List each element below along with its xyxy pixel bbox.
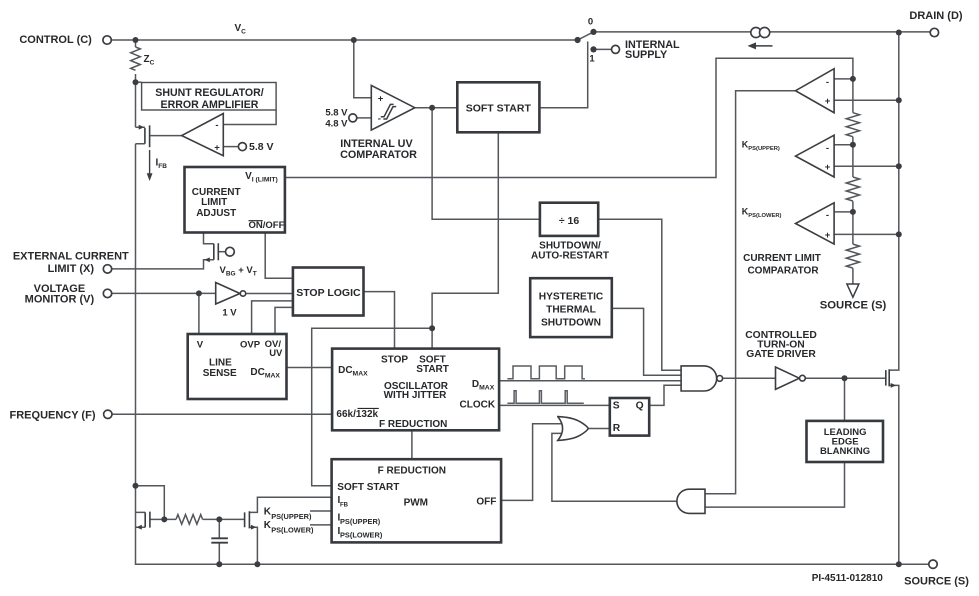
svg-text:ADJUST: ADJUST — [196, 208, 236, 219]
svg-text:SHUTDOWN: SHUTDOWN — [541, 318, 601, 329]
svg-text:PS(LOWER): PS(LOWER) — [271, 526, 314, 535]
svg-text:-: - — [826, 210, 829, 221]
svg-text:S: S — [613, 400, 620, 411]
svg-text:MONITOR (V): MONITOR (V) — [25, 294, 95, 306]
svg-text:F REDUCTION: F REDUCTION — [379, 419, 447, 430]
svg-text:STOP LOGIC: STOP LOGIC — [296, 287, 361, 299]
svg-text:PS(LOWER): PS(LOWER) — [340, 531, 383, 540]
svg-text:1: 1 — [589, 54, 595, 65]
svg-text:START: START — [416, 364, 449, 375]
svg-text:SOFT START: SOFT START — [466, 102, 532, 114]
svg-text:COMPARATOR: COMPARATOR — [340, 149, 417, 161]
svg-text:R: R — [613, 423, 621, 434]
svg-text:÷ 16: ÷ 16 — [559, 215, 580, 227]
svg-text:+: + — [214, 143, 220, 154]
svg-text:COMPARATOR: COMPARATOR — [747, 266, 819, 277]
svg-text:+: + — [378, 94, 384, 105]
svg-text:AUTO-RESTART: AUTO-RESTART — [531, 251, 609, 262]
svg-text:HYSTERETIC: HYSTERETIC — [539, 292, 604, 303]
svg-text:SUPPLY: SUPPLY — [625, 49, 668, 61]
svg-text:ERROR AMPLIFIER: ERROR AMPLIFIER — [161, 99, 259, 111]
svg-text:CLOCK: CLOCK — [460, 400, 496, 411]
svg-text:PI-4511-012810: PI-4511-012810 — [812, 573, 884, 584]
svg-text:LIMIT (X): LIMIT (X) — [48, 263, 95, 275]
svg-text:UV: UV — [269, 348, 283, 359]
svg-text:GATE DRIVER: GATE DRIVER — [746, 349, 816, 360]
svg-text:F REDUCTION: F REDUCTION — [378, 465, 446, 476]
svg-text:+: + — [825, 230, 831, 241]
svg-text:VBG + VT: VBG + VT — [220, 265, 257, 278]
svg-text:66k/132k: 66k/132k — [336, 409, 378, 420]
svg-text:-: - — [378, 114, 381, 125]
svg-text:PS(UPPER): PS(UPPER) — [271, 512, 312, 521]
svg-text:+: + — [825, 162, 831, 173]
svg-text:OVP: OVP — [240, 339, 261, 350]
svg-text:Q: Q — [636, 401, 644, 412]
svg-text:-: - — [215, 120, 218, 131]
svg-text:-: - — [826, 77, 829, 88]
svg-text:PWM: PWM — [404, 498, 428, 509]
svg-text:FB: FB — [340, 502, 349, 508]
svg-text:V: V — [197, 339, 204, 350]
svg-text:DRAIN (D): DRAIN (D) — [909, 10, 962, 22]
svg-text:SOURCE (S): SOURCE (S) — [820, 300, 887, 312]
svg-text:PS(UPPER): PS(UPPER) — [340, 517, 381, 526]
svg-text:FREQUENCY (F): FREQUENCY (F) — [10, 410, 96, 422]
svg-text:EXTERNAL CURRENT: EXTERNAL CURRENT — [13, 251, 129, 263]
svg-text:CONTROL (C): CONTROL (C) — [19, 34, 92, 46]
svg-text:LIMIT: LIMIT — [201, 197, 227, 208]
svg-text:ON/OFF: ON/OFF — [249, 220, 285, 231]
svg-text:SHUNT REGULATOR/: SHUNT REGULATOR/ — [155, 87, 264, 99]
svg-text:THERMAL: THERMAL — [546, 305, 596, 316]
svg-text:5.8 V: 5.8 V — [325, 108, 348, 119]
svg-text:+: + — [825, 96, 831, 107]
svg-text:SOFT START: SOFT START — [337, 482, 399, 493]
svg-text:0: 0 — [588, 17, 593, 28]
svg-text:WITH JITTER: WITH JITTER — [384, 390, 448, 401]
svg-text:BLANKING: BLANKING — [820, 446, 870, 457]
svg-text:OFF: OFF — [476, 497, 496, 508]
svg-text:INTERNAL UV: INTERNAL UV — [340, 138, 413, 150]
svg-text:SENSE: SENSE — [203, 368, 237, 379]
svg-text:CURRENT LIMIT: CURRENT LIMIT — [743, 253, 821, 264]
svg-text:1 V: 1 V — [222, 308, 237, 319]
svg-text:STOP: STOP — [381, 355, 408, 366]
svg-text:5.8 V: 5.8 V — [249, 141, 274, 153]
svg-text:-: - — [826, 143, 829, 154]
svg-text:SOURCE (S): SOURCE (S) — [904, 576, 969, 588]
svg-text:4.8 V: 4.8 V — [325, 119, 348, 130]
